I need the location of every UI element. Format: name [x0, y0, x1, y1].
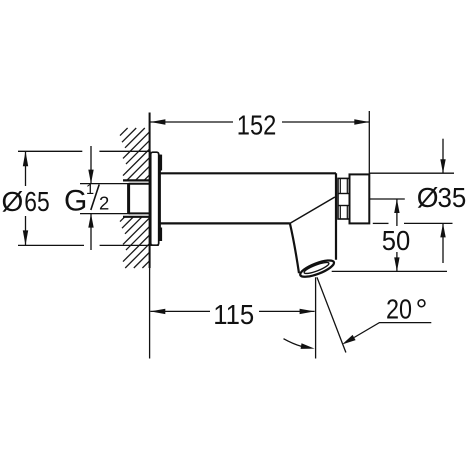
svg-text:2: 2: [99, 192, 109, 213]
svg-text:115: 115: [213, 299, 254, 330]
svg-text:G: G: [64, 185, 87, 218]
svg-text:1: 1: [86, 182, 94, 198]
svg-text:Ø: Ø: [417, 182, 439, 213]
svg-text:35: 35: [438, 182, 467, 213]
svg-text:20: 20: [386, 294, 412, 325]
svg-text:50: 50: [382, 225, 411, 256]
svg-text:65: 65: [24, 186, 49, 217]
svg-text:Ø: Ø: [2, 186, 24, 217]
svg-text:152: 152: [237, 109, 276, 140]
